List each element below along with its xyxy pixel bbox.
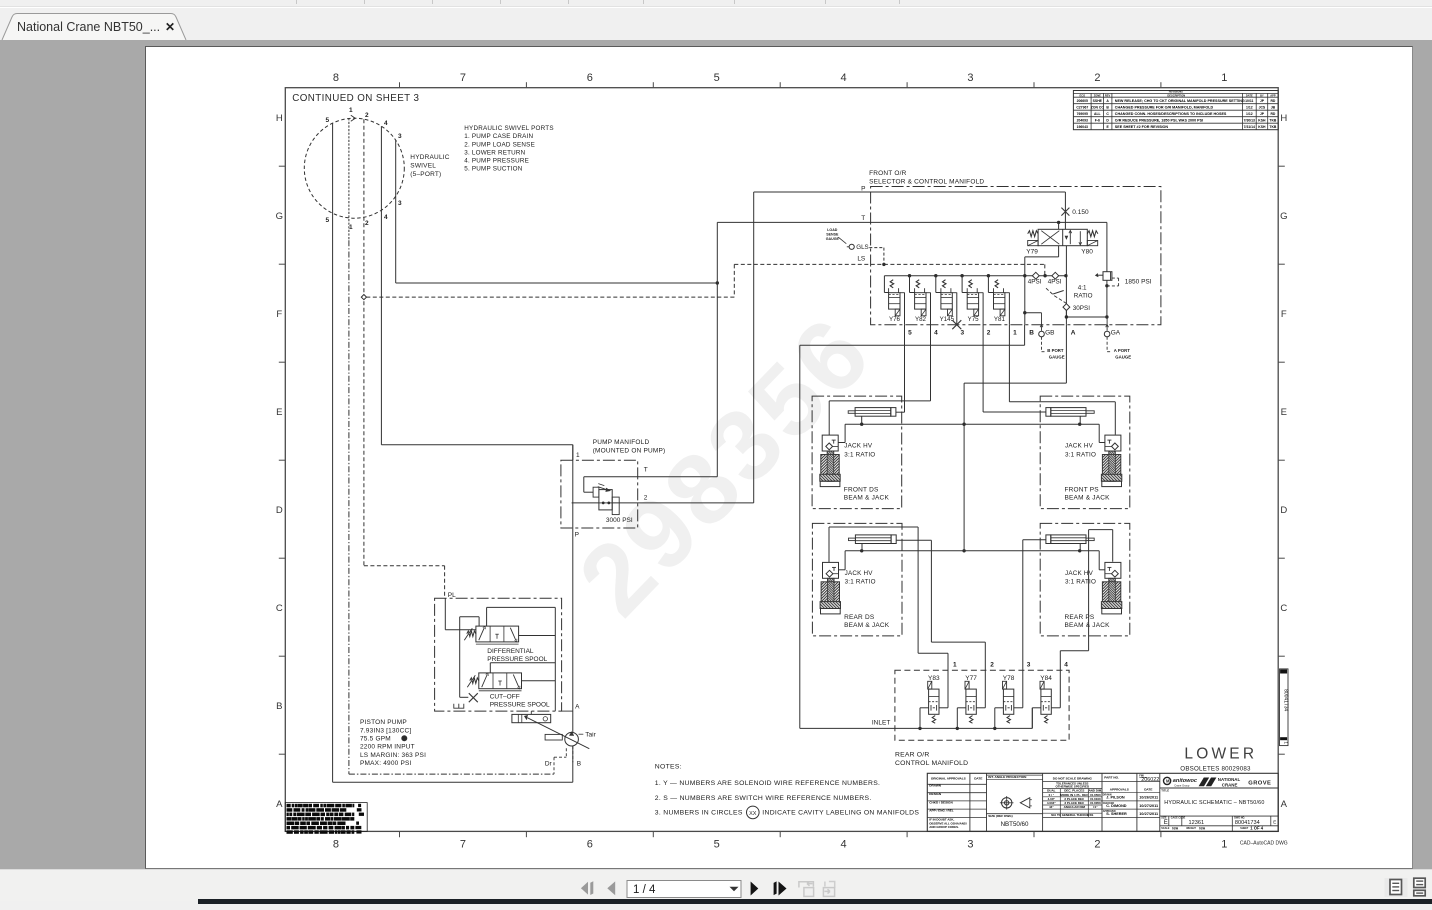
svg-text:CHECKED: CHECKED <box>1103 803 1115 805</box>
svg-text:APPROVED: APPROVED <box>1103 810 1116 813</box>
svg-text:SIZE (REF DWG): SIZE (REF DWG) <box>988 814 1012 818</box>
svg-text:PUMP MANIFOLD: PUMP MANIFOLD <box>593 439 650 446</box>
svg-text:8: 8 <box>333 72 339 84</box>
svg-text:2. PUMP LOAD SENSE: 2. PUMP LOAD SENSE <box>464 141 535 148</box>
svg-text:E: E <box>1281 407 1287 418</box>
svg-text:LS MARGIN: 363 PSI: LS MARGIN: 363 PSI <box>360 752 426 759</box>
svg-text:2: 2 <box>365 112 369 119</box>
suction bottom run <box>333 781 573 783</box>
solenoid rail <box>884 275 1065 277</box>
svg-text:NEW RELEASE; CHG TO CKT ORIGIN: NEW RELEASE; CHG TO CKT ORIGINAL MANIFOL… <box>1115 99 1245 103</box>
jack vertical cylinder (hatched) <box>1109 451 1116 481</box>
PL dashed pilot <box>364 565 445 567</box>
rear O/R manifold box <box>895 670 1069 740</box>
svg-text:1: 1 <box>1221 839 1227 851</box>
wire: rear jacks blind-end rail <box>845 550 1099 552</box>
svg-text:Y76: Y76 <box>889 316 901 323</box>
svg-text:Y79: Y79 <box>1026 249 1038 256</box>
svg-text:3. LOWER RETURN: 3. LOWER RETURN <box>464 149 525 156</box>
svg-text:DESIGN: DESIGN <box>929 792 942 796</box>
svg-text:3: 3 <box>960 330 964 337</box>
svg-text:B: B <box>577 761 581 768</box>
pump control box <box>435 598 562 711</box>
svg-text:E: E <box>1106 125 1109 129</box>
wire: port 2 load sense line (dashed) <box>363 119 365 566</box>
GB gauge <box>1041 313 1043 331</box>
svg-text:Y81: Y81 <box>994 316 1006 323</box>
svg-text:80041734: 80041734 <box>1283 689 1289 711</box>
svg-text:FRONT PS: FRONT PS <box>1065 487 1100 494</box>
wire: port 4 pressure line <box>380 126 382 445</box>
svg-text:0.150: 0.150 <box>1072 209 1089 216</box>
svg-text:F-6: F-6 <box>1095 118 1100 122</box>
svg-text:1. Y — NUMBERS ARE SOLENO: 1. Y — NUMBERS ARE SOLENOID WIRE REFEREN… <box>655 780 880 787</box>
svg-text:6: 6 <box>587 72 593 84</box>
svg-text:XX: XX <box>749 811 757 817</box>
plug X on port 3 <box>952 320 961 329</box>
svg-text:RATIO: RATIO <box>1074 293 1093 300</box>
svg-text:1: 1 <box>349 107 353 114</box>
svg-text:1 / 4: 1 / 4 <box>633 884 656 896</box>
svg-text:CONTINUED ON SHEET 3: CONTINUED ON SHEET 3 <box>292 93 419 104</box>
svg-text:3: 3 <box>1027 662 1031 669</box>
svg-text:ZON CC: ZON CC <box>1091 105 1105 109</box>
wire: rear riser 4 <box>1059 651 1061 708</box>
next page / last page buttons <box>751 881 787 895</box>
REAR DS BEAM & JACK box <box>812 523 902 636</box>
revision table <box>1073 91 1278 130</box>
svg-text:INLET: INLET <box>872 720 890 727</box>
wire: rear riser 2 <box>984 642 986 708</box>
svg-text:4: 4 <box>841 839 847 851</box>
svg-text:5. PUMP SUCTION: 5. PUMP SUCTION <box>464 166 522 173</box>
svg-text:SWIVEL: SWIVEL <box>410 163 436 170</box>
drain symbol <box>454 704 464 709</box>
svg-text:JACK HV: JACK HV <box>844 443 873 450</box>
wire: port 4 to front DS holding valve <box>930 325 932 401</box>
svg-text:BEAM & JACK: BEAM & JACK <box>844 495 890 502</box>
svg-text:PRESSURE SPOOL: PRESSURE SPOOL <box>487 656 547 663</box>
svg-text:SHEET: SHEET <box>1240 827 1249 830</box>
jack blind port <box>861 544 863 552</box>
svg-text:1850 PSI: 1850 PSI <box>1125 279 1152 286</box>
svg-text:(MOUNTED ON PUMP): (MOUNTED ON PUMP) <box>593 448 666 455</box>
wire: front jacks blind-end rail <box>845 423 1099 425</box>
svg-text:APP: APP <box>1270 93 1276 97</box>
previous view icon (disabled) <box>799 881 814 896</box>
svg-text:KSH: KSH <box>1258 125 1266 129</box>
svg-text:75.5 GPM: 75.5 GPM <box>360 736 391 743</box>
svg-text:E: E <box>1164 820 1168 826</box>
svg-text:G: G <box>276 211 283 222</box>
svg-text:2: 2 <box>990 662 994 669</box>
piston pump circle <box>572 445 574 461</box>
svg-text:1: 1 <box>576 452 580 459</box>
right edge part number strip <box>1280 669 1289 746</box>
svg-text:SEE SHEET #2 FOR REVISION: SEE SHEET #2 FOR REVISION <box>1115 125 1169 129</box>
svg-text:T: T <box>644 467 648 474</box>
svg-text:DESCRIPTION: DESCRIPTION <box>1167 93 1185 97</box>
svg-text:6: 6 <box>587 839 593 851</box>
svg-text:7/31/14: 7/31/14 <box>1244 125 1255 129</box>
svg-text:NOTES:: NOTES: <box>655 764 682 771</box>
svg-text:GLS: GLS <box>856 244 868 251</box>
svg-text:30PSI: 30PSI <box>1073 305 1090 312</box>
svg-text:B PORT: B PORT <box>1047 348 1064 353</box>
svg-text:CUT–OFF: CUT–OFF <box>490 694 520 701</box>
solenoid valve Y82 <box>908 274 911 277</box>
svg-text:JACK HV: JACK HV <box>1065 570 1094 577</box>
svg-text:JACK HV: JACK HV <box>1065 443 1094 450</box>
svg-text:3: 3 <box>398 133 402 140</box>
svg-text:A: A <box>1071 330 1076 337</box>
svg-text:H: H <box>276 113 283 124</box>
svg-text:D: D <box>276 505 283 516</box>
plugged port X <box>460 696 469 698</box>
svg-text:GA: GA <box>1111 329 1121 336</box>
solenoid valve Y75 <box>960 274 963 277</box>
wire: port 1 to front PS holding valve <box>1008 325 1010 402</box>
wire: A port to center riser <box>1065 325 1067 383</box>
svg-text:Crane Group: Crane Group <box>1174 784 1190 788</box>
pump drain dashes <box>554 756 566 758</box>
svg-text:7: 7 <box>460 839 466 851</box>
svg-text:Tair: Tair <box>585 732 596 739</box>
svg-text:2: 2 <box>644 495 648 502</box>
svg-text:JP: JP <box>1260 112 1265 116</box>
svg-text:4PSI: 4PSI <box>1048 279 1062 286</box>
svg-text:C: C <box>1106 112 1109 116</box>
svg-text:2: 2 <box>1094 839 1100 851</box>
svg-text:±1°: ±1° <box>1093 805 1098 809</box>
front O/R manifold box <box>871 187 1161 325</box>
svg-text:3000 PSI: 3000 PSI <box>606 517 633 524</box>
wire loops around diff spool <box>487 606 556 608</box>
svg-text:10/11: 10/11 <box>1245 99 1253 103</box>
svg-text:DO NOT SCALE DRAWING: DO NOT SCALE DRAWING <box>1053 777 1093 781</box>
svg-text:CHANGED PRESSURE FOR O/R MANIF: CHANGED PRESSURE FOR O/R MANIFOLD, MANIF… <box>1115 105 1214 109</box>
inlet rail <box>800 727 1033 729</box>
svg-text:GROVE: GROVE <box>1248 781 1271 787</box>
svg-text:ANGULAR DIM: ANGULAR DIM <box>1064 805 1086 809</box>
wire: B vertical <box>1025 256 1059 258</box>
svg-text:ECO: ECO <box>1079 93 1085 97</box>
wire: port 1 case drain line (dash-dot) <box>348 118 350 240</box>
REAR PS BEAM & JACK box <box>1040 523 1130 636</box>
svg-text:4: 4 <box>1064 662 1068 669</box>
svg-text:A: A <box>1106 99 1109 103</box>
pump compensator cylinder <box>530 711 532 714</box>
svg-text:HYDRAULIC SWIVEL PORTS: HYDRAULIC SWIVEL PORTS <box>464 125 553 132</box>
jack vertical cylinder (hatched) <box>1109 578 1116 608</box>
svg-text:CRANE: CRANE <box>1222 782 1238 787</box>
svg-text:Y75: Y75 <box>968 316 980 323</box>
jack holding valve <box>823 562 839 578</box>
svg-text:HYDRAULIC: HYDRAULIC <box>410 154 449 161</box>
jack vertical cylinder (hatched) <box>828 578 835 608</box>
svg-text:H: H <box>1280 113 1287 124</box>
svg-text:7/30/13: 7/30/13 <box>1244 118 1255 122</box>
svg-text:44°: 44° <box>1049 805 1054 809</box>
svg-text:NBT50/60: NBT50/60 <box>1001 821 1029 828</box>
svg-text:GB: GB <box>1045 329 1054 336</box>
svg-text:E: E <box>1273 820 1276 825</box>
wire: A vertical below valve <box>1065 246 1067 325</box>
svg-text:anitowoc: anitowoc <box>1173 778 1198 784</box>
svg-text:PISTON PUMP: PISTON PUMP <box>360 719 407 726</box>
svg-text:REVISIONS: REVISIONS <box>1169 90 1183 94</box>
3000 PSI relief valve <box>584 476 718 478</box>
svg-text:2. S — NUMBERS ARE SWITCH: 2. S — NUMBERS ARE SWITCH WIRE REFERENCE… <box>655 795 872 802</box>
svg-text:4. PUMP PRESSURE: 4. PUMP PRESSURE <box>464 158 529 165</box>
svg-text:(5–PORT): (5–PORT) <box>410 171 441 178</box>
wire: rear riser 1 <box>947 653 949 708</box>
svg-text:DATE: DATE <box>1246 93 1253 97</box>
svg-text:3:1 RATIO: 3:1 RATIO <box>845 579 876 586</box>
svg-text:4: 4 <box>841 72 847 84</box>
lower rail in manifold <box>1066 316 1107 318</box>
svg-text:B: B <box>1106 105 1109 109</box>
svg-text:GAUGE: GAUGE <box>1115 355 1131 360</box>
svg-text:T: T <box>861 215 865 222</box>
svg-text:RD: RD <box>1270 99 1275 103</box>
svg-text:2200 RPM INPUT: 2200 RPM INPUT <box>360 744 415 751</box>
jack blind port <box>861 416 863 424</box>
svg-text:DIFFERENTIAL: DIFFERENTIAL <box>487 648 534 655</box>
wire: LS dashed run <box>366 296 734 298</box>
svg-text:12361: 12361 <box>1189 820 1205 826</box>
svg-text:1: 1 <box>953 662 957 669</box>
svg-text:JB: JB <box>1271 105 1276 109</box>
svg-text:5: 5 <box>325 217 329 224</box>
svg-text:B: B <box>276 701 282 712</box>
wire: B port long run to rear inlet <box>1024 325 1026 346</box>
svg-text:M: M <box>1166 779 1170 784</box>
svg-text:F: F <box>1281 309 1287 320</box>
svg-text:5: 5 <box>714 72 720 84</box>
svg-text:LS: LS <box>857 256 866 263</box>
svg-text:BEAM & JACK: BEAM & JACK <box>844 622 890 629</box>
wire: P riser <box>753 192 755 503</box>
svg-text:3: 3 <box>398 200 402 207</box>
next view icon (disabled) <box>823 882 834 897</box>
svg-text:JP: JP <box>1260 99 1265 103</box>
svg-text:10/27/2011: 10/27/2011 <box>1139 812 1158 816</box>
barcode / fine print block <box>285 803 367 832</box>
GA gauge <box>1106 317 1108 331</box>
first page button (disabled) <box>581 881 615 895</box>
svg-text:NATIONAL: NATIONAL <box>1218 777 1241 782</box>
4PSI check valves <box>1023 274 1026 277</box>
1850 PSI relief <box>1106 222 1108 317</box>
svg-text:GAUGE: GAUGE <box>826 237 840 241</box>
svg-text:4: 4 <box>934 330 938 337</box>
pump manifold box <box>561 460 638 528</box>
svg-text:206605: 206605 <box>1077 99 1088 103</box>
svg-text:B: B <box>1029 330 1034 337</box>
svg-text:4: 4 <box>384 214 388 221</box>
svg-text:298356: 298356 <box>558 295 894 637</box>
wire: T line into manifold <box>717 221 1107 223</box>
svg-text:HYDRAULIC SCHEMATIC – NBT50/60: HYDRAULIC SCHEMATIC – NBT50/60 <box>1164 800 1264 806</box>
FRONT DS BEAM & JACK box <box>812 396 902 509</box>
wire: valve to B drop <box>1058 222 1060 229</box>
svg-text:BEAM & JACK: BEAM & JACK <box>1065 622 1111 629</box>
swashplate arrow <box>527 718 589 749</box>
svg-text:CONTROL MANIFOLD: CONTROL MANIFOLD <box>895 760 968 767</box>
svg-text:ZONE: ZONE <box>1094 93 1101 97</box>
svg-text:GAUGE: GAUGE <box>1049 355 1065 360</box>
svg-text:A: A <box>276 799 283 810</box>
orifice 0.150 <box>1064 192 1066 229</box>
svg-text:C: C <box>276 603 283 614</box>
svg-text:1/12: 1/12 <box>1246 112 1253 116</box>
svg-text:SSHE: SSHE <box>1093 99 1103 103</box>
Tair label <box>579 733 584 735</box>
GB takeoff <box>1025 312 1042 314</box>
svg-text:SELECTOR & CONTROL MANIFOLD: SELECTOR & CONTROL MANIFOLD <box>869 179 984 186</box>
solenoid valve Y145 <box>934 274 937 277</box>
svg-text:REAR DS: REAR DS <box>844 614 875 621</box>
cut-off pressure spool valve <box>490 662 555 664</box>
logos <box>1160 787 1278 789</box>
svg-text:ORIGINAL APPROVALS: ORIGINAL APPROVALS <box>931 777 966 781</box>
svg-text:G: G <box>1280 211 1287 222</box>
svg-text:F: F <box>276 309 282 320</box>
jack holding valve <box>1105 562 1121 578</box>
svg-text:WEIGHT: WEIGHT <box>1186 827 1196 830</box>
svg-text:1: 1 <box>349 224 353 231</box>
svg-text:REV: REV <box>1105 93 1111 97</box>
svg-text:DATE: DATE <box>1144 788 1152 792</box>
wire: port 5 to front DS rod end <box>904 325 906 413</box>
svg-text:FRONT DS: FRONT DS <box>844 487 879 494</box>
svg-text:3:1 RATIO: 3:1 RATIO <box>844 451 875 458</box>
svg-text:CHANGED CONN. HOSES/DESCRIPTIO: CHANGED CONN. HOSES/DESCRIPTIONS TO INCL… <box>1115 112 1227 116</box>
svg-text:1: 1 <box>1221 72 1227 84</box>
svg-text:CAD–AutoCAD DWG: CAD–AutoCAD DWG <box>1240 841 1288 847</box>
svg-text:3. NUMBERS IN CIRCLES: 3. NUMBERS IN CIRCLES <box>655 810 743 817</box>
svg-text:BEAM & JACK: BEAM & JACK <box>1065 495 1111 502</box>
svg-text:JACK HV: JACK HV <box>845 570 874 577</box>
page number combo box <box>627 881 741 898</box>
svg-text:3: 3 <box>967 839 973 851</box>
wire: pressure run to pump manifold <box>381 444 572 446</box>
directional valve Y79/Y80 <box>1038 229 1087 245</box>
swivel marker triangle <box>351 115 356 121</box>
title block <box>927 773 1278 831</box>
svg-text:TITLE: TITLE <box>1161 788 1169 792</box>
svg-text:C: C <box>1280 603 1287 614</box>
svg-text:Y82: Y82 <box>915 316 927 323</box>
svg-text:Y80: Y80 <box>1081 249 1093 256</box>
svg-text:SENSE: SENSE <box>826 233 839 237</box>
svg-text:N/A TO GENERAL THICKNESS: N/A TO GENERAL THICKNESS <box>1051 813 1093 817</box>
wire: port 5 suction line <box>332 123 334 782</box>
svg-text:TKB: TKB <box>1269 125 1277 129</box>
svg-text:D: D <box>1106 118 1109 122</box>
svg-text:P: P <box>575 532 579 539</box>
jack blind port <box>1079 416 1081 424</box>
wire: P line into manifold <box>754 191 1066 193</box>
svg-text:8: 8 <box>333 839 339 851</box>
svg-text:4: 4 <box>384 120 388 127</box>
svg-text:1: 1 <box>1013 330 1017 337</box>
svg-text:N/A: N/A <box>1172 827 1178 831</box>
svg-text:PRESSURE SPOOL: PRESSURE SPOOL <box>490 702 550 709</box>
jack holding valve <box>1105 435 1121 451</box>
wire: rear riser 3 <box>1022 540 1024 708</box>
svg-text:3: 3 <box>967 72 973 84</box>
svg-text:AND GROUP CODES.: AND GROUP CODES. <box>929 825 959 829</box>
svg-text:A: A <box>575 704 580 711</box>
svg-text:2: 2 <box>1094 72 1100 84</box>
wire: return run to T riser <box>396 282 718 284</box>
wire: port 2 to front PS rod end <box>982 325 984 412</box>
svg-text:National Crane NBT50_...: National Crane NBT50_... <box>17 20 160 34</box>
svg-text:Y145: Y145 <box>940 316 955 323</box>
svg-text:2: 2 <box>987 330 991 337</box>
svg-text:3:1 RATIO: 3:1 RATIO <box>1065 451 1096 458</box>
svg-text:204093: 204093 <box>1077 118 1088 122</box>
hydraulic swivel (5-port) circle <box>304 118 404 218</box>
svg-text:769095: 769095 <box>1077 112 1088 116</box>
svg-text:RD: RD <box>1270 112 1275 116</box>
svg-text:BY: BY <box>1260 93 1264 97</box>
svg-text:P: P <box>861 186 865 193</box>
svg-text:5: 5 <box>908 330 912 337</box>
svg-text:ALL: ALL <box>1094 112 1101 116</box>
wire: T riser <box>716 222 718 476</box>
svg-text:1. PUMP CASE DRAIN: 1. PUMP CASE DRAIN <box>464 133 533 140</box>
jack holding valve <box>822 435 838 451</box>
continuous view icon <box>1414 878 1425 896</box>
jack vertical cylinder (hatched) <box>827 451 834 481</box>
svg-text:CAGE CODE: CAGE CODE <box>1171 817 1186 820</box>
svg-text:O/R REDUCE PRESSURE, 1850 PSI,: O/R REDUCE PRESSURE, 1850 PSI, WAS 2000 … <box>1115 118 1203 122</box>
svg-text:10/26/2011: 10/26/2011 <box>1139 796 1158 800</box>
svg-text:DRAWN: DRAWN <box>1103 794 1112 797</box>
load sense branch diamond <box>361 295 366 300</box>
svg-text:A PORT: A PORT <box>1114 348 1130 353</box>
svg-text:KSH: KSH <box>1258 118 1266 122</box>
svg-text:PART NO.: PART NO. <box>1104 776 1119 780</box>
svg-text:DATE: DATE <box>974 777 982 781</box>
case drain bottom run <box>349 773 554 775</box>
svg-text:APP / ENG / REL: APP / ENG / REL <box>929 809 953 813</box>
differential pressure spool valve <box>444 598 446 629</box>
FRONT PS BEAM & JACK box <box>1040 396 1130 509</box>
svg-text:D: D <box>1280 505 1287 516</box>
svg-text:SCALE: SCALE <box>1161 827 1170 830</box>
svg-text:✕: ✕ <box>165 20 175 34</box>
wire: port 3 return line <box>395 140 397 283</box>
jack beam cylinder <box>1051 535 1086 544</box>
svg-text:206022: 206022 <box>1141 777 1159 783</box>
jack beam cylinder <box>855 408 891 417</box>
svg-text:DRAWN: DRAWN <box>929 784 941 788</box>
svg-text:4PSI: 4PSI <box>1028 279 1042 286</box>
svg-text:5: 5 <box>714 839 720 851</box>
svg-text:10/27/2011: 10/27/2011 <box>1139 804 1158 808</box>
svg-text:7.93IN3 [130CC]: 7.93IN3 [130CC] <box>360 727 411 734</box>
svg-text:LOAD: LOAD <box>827 228 838 232</box>
svg-text:REAR O/R: REAR O/R <box>895 752 929 759</box>
svg-text:4:1: 4:1 <box>1078 285 1087 292</box>
svg-text:N/A: N/A <box>1199 827 1205 831</box>
svg-text:FRONT O/R: FRONT O/R <box>869 170 907 177</box>
sheet border frame <box>285 88 1278 832</box>
